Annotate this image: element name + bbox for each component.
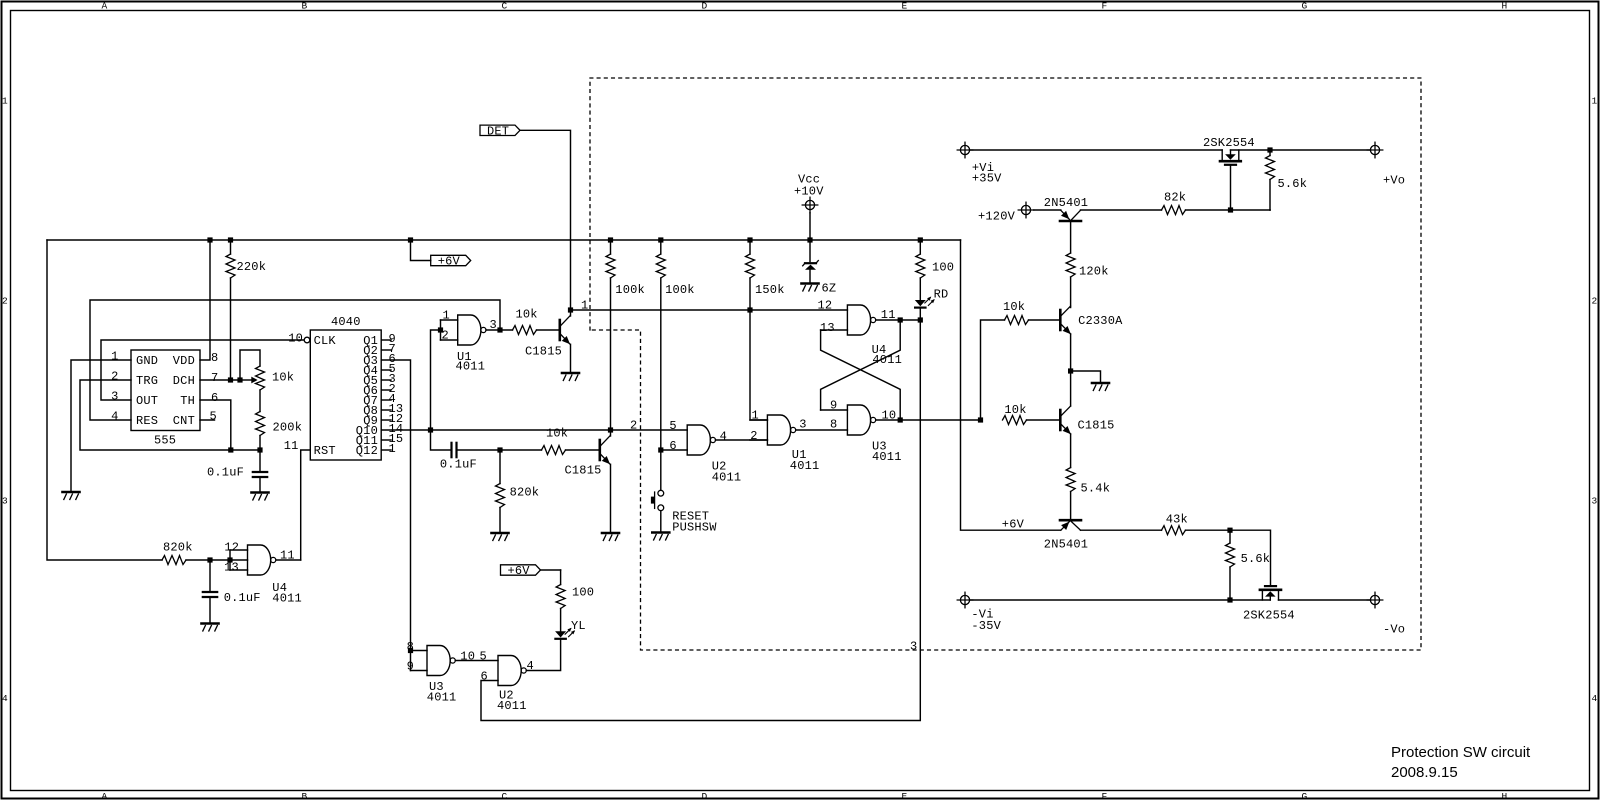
svg-text:9: 9 <box>830 399 837 413</box>
svg-text:4: 4 <box>111 410 118 424</box>
resistor 120k <box>1066 253 1109 308</box>
4040 RST pin 11 label <box>284 439 299 453</box>
resistor 100 (YL) <box>556 570 594 631</box>
svg-text:2: 2 <box>2 296 8 307</box>
transistor 2N5401 top (PNP) <box>1044 196 1088 221</box>
wire cross-couple U4out to U3 pin9 <box>821 320 901 410</box>
svg-text:1: 1 <box>2 96 8 107</box>
resistor 200k <box>256 412 303 451</box>
svg-text:82k: 82k <box>1164 191 1186 205</box>
wire 2N5401 base to 120k <box>1070 222 1072 253</box>
svg-text:5.6k: 5.6k <box>1278 177 1308 191</box>
wire 555 RES pin4 to U1 output node <box>90 300 500 420</box>
resistor 150k <box>746 240 785 310</box>
wire U2b output to YL <box>526 639 560 671</box>
svg-text:DET: DET <box>487 124 509 138</box>
net label 3 <box>910 640 917 654</box>
junction TH wire <box>228 447 233 452</box>
svg-text:820k: 820k <box>510 486 540 500</box>
svg-text:10: 10 <box>460 650 475 664</box>
ground C1815#1 <box>562 373 579 381</box>
border column labels bottom <box>102 791 1508 800</box>
ground 820k <box>492 533 509 541</box>
wire U3b out to U2b pin5 <box>455 650 498 664</box>
svg-text:VDD: VDD <box>173 354 195 368</box>
capacitor 0.1uF (reset) <box>203 560 261 624</box>
svg-text:100: 100 <box>572 586 594 600</box>
wire C1815#3 collector up <box>1070 371 1072 406</box>
wire cap to 10k <box>457 449 542 451</box>
svg-text:C: C <box>502 1 508 12</box>
4040 output pin numbers <box>389 332 404 456</box>
gate U2 4011 bottom (pins 5,6 -> 4) <box>481 656 534 713</box>
svg-text:4011: 4011 <box>872 353 902 367</box>
svg-text:2: 2 <box>111 370 118 384</box>
svg-text:G: G <box>1302 791 1308 800</box>
capacitor 0.1uF (coupling) <box>440 443 477 472</box>
svg-text:F: F <box>1102 791 1108 800</box>
wire Vcc to bus <box>809 213 811 240</box>
svg-text:C1815: C1815 <box>1078 419 1115 433</box>
wire RD cathode down to U4 out / feedback to U2 pin6 <box>481 309 920 721</box>
wire 2N5401 collector to 82k <box>1081 209 1162 211</box>
junction bus/220k <box>228 237 233 242</box>
gate U4 4011 latch (pins 12,13 -> 11) <box>818 298 903 366</box>
net flag +6V (YL) <box>501 564 561 578</box>
resistor 10k (U1 out) <box>513 308 559 335</box>
svg-text:2SK2554: 2SK2554 <box>1203 136 1255 150</box>
dashed boundary box <box>590 78 1421 650</box>
svg-text:+Vo: +Vo <box>1383 174 1405 188</box>
wire 2N5401b collector to 43k <box>1081 529 1162 531</box>
svg-text:CLK: CLK <box>314 334 337 348</box>
resistor 5.4k <box>1066 468 1110 520</box>
svg-text:H: H <box>1502 791 1508 800</box>
junction U1 input tie <box>438 327 443 332</box>
wire 4040 Q3 pin6 to U3 gate inputs <box>381 360 410 671</box>
wire U1 output <box>486 329 513 331</box>
wire -Vi rail right segment <box>1279 599 1371 601</box>
wire +Vi rail right segment <box>1231 149 1371 151</box>
wire 150k node to U1 mid pin1 <box>750 310 767 420</box>
svg-text:4011: 4011 <box>712 471 742 485</box>
svg-text:8: 8 <box>211 351 218 365</box>
svg-text:10: 10 <box>288 332 303 346</box>
svg-text:2N5401: 2N5401 <box>1044 538 1088 552</box>
555 pin numbers right <box>210 351 219 424</box>
junction U3b inputs <box>408 648 413 653</box>
svg-text:5.6k: 5.6k <box>1241 552 1271 566</box>
wire 555 OUT pin3 to 4040 CLK <box>101 340 304 400</box>
wire to 2SK2554 bottom gate <box>1230 530 1271 585</box>
resistor 10k (C2330A base) <box>981 300 1060 420</box>
svg-text:6: 6 <box>481 669 488 683</box>
gate U2 4011 (pins 5,6 -> 4) <box>669 419 741 485</box>
svg-text:+6V: +6V <box>1002 518 1025 532</box>
wire U1 inputs to Q10/cap node <box>431 330 451 450</box>
svg-text:43k: 43k <box>1166 513 1188 527</box>
wire C1815#1 collector <box>570 310 572 316</box>
svg-text:CNT: CNT <box>173 414 195 428</box>
resistor 220k <box>226 240 266 380</box>
gate U1 4011 (pins 1,2 -> 3) <box>441 309 497 374</box>
wire 555 TRG pin2 <box>80 380 260 450</box>
svg-text:-Vo: -Vo <box>1383 623 1405 637</box>
IC 4040 counter box <box>310 315 381 460</box>
junction bus/150k <box>747 237 752 242</box>
svg-text:G: G <box>1302 1 1308 12</box>
junction 150k/net1 <box>747 307 752 312</box>
terminal +Vi <box>957 142 1002 185</box>
wire 5.6k bottom corner <box>1269 209 1271 211</box>
wire +6V rail to 2N5401 bottom <box>961 240 1061 530</box>
svg-text:OUT: OUT <box>136 394 158 408</box>
junction bus/VDD <box>207 237 212 242</box>
wire +6V bus (y=240) <box>47 239 961 241</box>
svg-text:+10V: +10V <box>794 184 824 198</box>
svg-text:4011: 4011 <box>456 360 486 374</box>
ground reset cap <box>202 624 219 632</box>
svg-text:C: C <box>502 791 508 800</box>
svg-text:10k: 10k <box>272 371 294 385</box>
svg-text:6: 6 <box>211 391 218 405</box>
junction cap/820k/10k <box>497 447 502 452</box>
wire left rail down to 820k row <box>47 240 162 560</box>
svg-text:2: 2 <box>1592 296 1598 307</box>
junction DCH/pot wiper <box>237 377 242 382</box>
resistor 10k (base C1815#2) <box>542 427 599 455</box>
junction 820k/cap <box>207 557 212 562</box>
wire 555 VDD pin8 to bus <box>200 240 210 360</box>
LED RD <box>915 288 949 308</box>
wire 555 DCH pin7 <box>200 379 240 381</box>
svg-text:4: 4 <box>1592 693 1598 704</box>
svg-text:5.4k: 5.4k <box>1081 482 1111 496</box>
gate U1 4011 mid (pins 1,2 -> 3) <box>750 408 819 473</box>
svg-text:4040: 4040 <box>331 315 361 329</box>
svg-text:PUSHSW: PUSHSW <box>672 520 717 534</box>
svg-text:E: E <box>902 1 908 12</box>
net label 2 (U1 pin2) <box>750 429 757 443</box>
terminal +Vo <box>1367 142 1405 187</box>
svg-text:4011: 4011 <box>790 459 820 473</box>
svg-text:0.1uF: 0.1uF <box>224 591 261 605</box>
svg-text:+120V: +120V <box>978 210 1016 224</box>
4040 CLK input circle pin 10 <box>288 332 310 346</box>
svg-text:5: 5 <box>210 410 217 424</box>
svg-text:3: 3 <box>910 640 917 654</box>
ground C2330A emitter <box>1092 383 1109 391</box>
wire C2330A emitter to ground junction <box>1070 334 1072 371</box>
svg-text:0.1uF: 0.1uF <box>207 466 244 480</box>
svg-text:C1815: C1815 <box>525 345 562 359</box>
svg-text:12: 12 <box>224 541 239 555</box>
svg-text:H: H <box>1502 1 1508 12</box>
svg-text:3: 3 <box>2 496 8 507</box>
wire U1 mid output to U3 pin8 <box>796 418 848 432</box>
wire U3 output row 420 <box>876 419 981 421</box>
junction U1 output node <box>497 327 502 332</box>
junction 10k feed <box>978 417 983 422</box>
resistor 820k (base pulldown) <box>496 450 540 533</box>
wire C1815#2 emitter to ground <box>610 464 612 533</box>
gate U3 4011 bottom (pins 8,9 -> 10) <box>407 640 476 705</box>
wire 4040 RST pin11 from U4 output <box>301 450 311 560</box>
wire C1815#2 collector to Q10 row <box>610 430 612 436</box>
svg-text:1: 1 <box>389 442 396 456</box>
net label 1 <box>581 299 588 313</box>
svg-text:13: 13 <box>820 321 835 335</box>
svg-text:B: B <box>302 1 308 12</box>
svg-text:D: D <box>702 1 708 12</box>
svg-text:1: 1 <box>443 309 450 323</box>
wire row net1 to U4 pin12 <box>571 309 848 311</box>
svg-text:RD: RD <box>934 288 949 302</box>
svg-text:2N5401: 2N5401 <box>1044 196 1088 210</box>
svg-text:TRG: TRG <box>136 374 158 388</box>
svg-text:F: F <box>1102 1 1108 12</box>
svg-text:1: 1 <box>1592 96 1598 107</box>
svg-text:Protection SW circuit: Protection SW circuit <box>1391 744 1531 761</box>
terminal +120V <box>978 202 1034 223</box>
svg-text:100k: 100k <box>665 283 695 297</box>
wire U2 output to U1 mid pin2 <box>716 439 768 441</box>
svg-text:E: E <box>902 791 908 800</box>
ground RESET switch <box>652 533 669 541</box>
wire to ground stub <box>1071 371 1101 383</box>
svg-text:100k: 100k <box>615 283 645 297</box>
svg-text:5: 5 <box>669 419 676 433</box>
transistor C1815 #3 <box>1060 406 1114 434</box>
LED YL <box>555 619 586 639</box>
svg-text:GND: GND <box>136 354 158 368</box>
resistor 5.6k top <box>1266 150 1308 210</box>
wire +120V to 2N5401 emitter <box>1034 209 1061 211</box>
power terminal Vcc +10V <box>794 173 824 213</box>
wire cross-couple U3out to U4 pin13 <box>821 330 901 420</box>
junction bus/100k-2 <box>658 237 663 242</box>
svg-text:6: 6 <box>669 439 676 453</box>
svg-text:10k: 10k <box>546 427 568 441</box>
svg-text:2SK2554: 2SK2554 <box>1243 608 1295 622</box>
junction RD/U4out <box>918 317 923 322</box>
svg-text:2: 2 <box>630 418 637 432</box>
IC 555 timer box <box>131 350 200 448</box>
svg-text:RES: RES <box>136 414 158 428</box>
svg-text:8: 8 <box>830 418 837 432</box>
potentiometer 10k wiper arrow <box>240 377 258 384</box>
wire 4040 Q10 pin14 row <box>381 429 687 431</box>
svg-text:220k: 220k <box>237 260 267 274</box>
svg-text:1: 1 <box>111 350 118 364</box>
junction 82k/gate <box>1228 207 1233 212</box>
junction bus/+6V flag <box>408 237 413 242</box>
net flag +6V (top) <box>411 240 471 269</box>
wire C1815#3 emitter to 5.4k <box>1070 434 1072 468</box>
resistor 10k (C1815#3 base) <box>1003 403 1060 425</box>
junction bus/Vcc-zener <box>807 237 812 242</box>
ground C1815#2 <box>602 533 619 541</box>
svg-text:13: 13 <box>224 561 239 575</box>
resistor 5.6k bottom <box>1226 530 1271 600</box>
resistor 820k (reset) <box>162 541 248 565</box>
terminal -Vi <box>957 592 1001 633</box>
junction 43k/5.6k <box>1227 528 1232 533</box>
svg-text:2008.9.15: 2008.9.15 <box>1391 764 1458 781</box>
capacitor 0.1uF (timing) <box>207 450 267 493</box>
svg-text:-35V: -35V <box>971 619 1001 633</box>
wire +Vi rail left segment <box>970 149 1223 151</box>
junction emitter/collector/ground <box>1068 368 1073 373</box>
wire zener from bus <box>809 240 811 262</box>
ground zener <box>802 284 819 292</box>
wire 555 GND pin1 to ground <box>71 360 131 492</box>
4040 Q output stubs <box>381 340 391 450</box>
junction U4out/cross <box>898 317 903 322</box>
junction DET/collector <box>568 307 573 312</box>
resistor 100k #2 <box>656 240 694 450</box>
net label 2 <box>630 418 637 432</box>
svg-text:200k: 200k <box>273 421 303 435</box>
svg-text:+6V: +6V <box>438 255 461 269</box>
svg-text:4011: 4011 <box>497 699 527 713</box>
junction U3out/cross <box>898 417 903 422</box>
junction 200k/cap <box>257 447 262 452</box>
wire 2SK2554 top gate lead <box>1230 166 1232 210</box>
svg-text:YL: YL <box>571 619 586 633</box>
svg-text:4011: 4011 <box>872 450 902 464</box>
svg-text:3: 3 <box>111 390 118 404</box>
svg-text:3: 3 <box>1592 496 1598 507</box>
svg-text:+6V: +6V <box>508 564 531 578</box>
junction DCH/220k <box>228 377 233 382</box>
svg-text:7: 7 <box>211 371 218 385</box>
wire U4 output row <box>876 319 921 321</box>
zener diode 6Z <box>803 261 837 296</box>
wire U4 output to RST <box>276 559 301 561</box>
gate U3 4011 latch (pins 9,8 -> 10) <box>821 399 902 464</box>
wire DET to collector node <box>520 130 571 310</box>
border row labels left <box>2 96 8 705</box>
svg-text:0.1uF: 0.1uF <box>440 458 477 472</box>
net label +6V (right) <box>1002 518 1025 532</box>
svg-text:12: 12 <box>818 298 833 312</box>
junction bus/100ohm <box>918 237 923 242</box>
svg-text:100: 100 <box>932 261 954 275</box>
transistor 2N5401 bottom (PNP) <box>1044 520 1088 551</box>
junction 100k2/pin6/switch <box>658 447 663 452</box>
svg-text:1: 1 <box>581 299 588 313</box>
ground 555 GND <box>63 492 80 500</box>
potentiometer 10k top link <box>240 350 260 380</box>
resistor 82k <box>1162 191 1271 215</box>
wire C1815#1 emitter to ground <box>570 344 572 373</box>
svg-text:820k: 820k <box>163 541 193 555</box>
border column labels top <box>102 1 1508 12</box>
svg-text:C1815: C1815 <box>565 464 602 478</box>
svg-text:10k: 10k <box>1004 403 1026 417</box>
border row labels right <box>1592 96 1598 705</box>
resistor 100 (RD) <box>916 240 954 300</box>
svg-text:120k: 120k <box>1079 265 1109 279</box>
transistor C1815 #2 <box>565 436 611 478</box>
wire -Vi rail left segment <box>970 599 1271 601</box>
resistor 43k <box>1162 513 1231 535</box>
junction Q10 row <box>428 427 433 432</box>
net flag DET <box>480 124 520 138</box>
svg-text:4011: 4011 <box>272 592 302 606</box>
pushbutton RESET PUSHSW <box>651 450 717 534</box>
resistor 100k #1 <box>606 240 645 430</box>
svg-text:555: 555 <box>154 434 176 448</box>
svg-text:9: 9 <box>407 660 414 674</box>
terminal -Vo <box>1367 592 1405 636</box>
svg-text:4011: 4011 <box>427 690 457 704</box>
gate U4 4011 (pins 12,13 -> 11) <box>224 541 302 606</box>
wire pot to 200k <box>259 390 261 412</box>
junction collector/Q10 row <box>608 427 613 432</box>
svg-text:4: 4 <box>2 693 8 704</box>
svg-text:6Z: 6Z <box>822 282 837 296</box>
ground timing cap <box>252 493 269 501</box>
svg-text:4: 4 <box>720 430 727 444</box>
555 pin numbers left <box>111 350 118 424</box>
svg-text:DCH: DCH <box>173 374 195 388</box>
svg-text:10k: 10k <box>516 308 538 322</box>
wire U2 pin6 <box>661 449 687 451</box>
MOSFET 2SK2554 top <box>1203 136 1255 165</box>
transistor C2330A (NPN up) <box>1060 306 1123 334</box>
stub 555 CNT pin5 <box>200 419 215 421</box>
junction 5.6k/rail <box>1227 597 1232 602</box>
svg-text:A: A <box>102 791 108 800</box>
svg-text:TH: TH <box>180 394 195 408</box>
svg-text:D: D <box>702 791 708 800</box>
svg-text:A: A <box>102 1 108 12</box>
svg-text:10k: 10k <box>1003 300 1025 314</box>
svg-text:C2330A: C2330A <box>1078 314 1123 328</box>
svg-text:11: 11 <box>284 439 299 453</box>
junction bus/100k-1 <box>608 237 613 242</box>
svg-text:+35V: +35V <box>972 172 1002 186</box>
wire 555 TH pin6 <box>200 400 231 450</box>
svg-text:1: 1 <box>752 408 759 422</box>
transistor C1815 #1 <box>525 316 570 359</box>
junction rail/5.6k <box>1267 147 1272 152</box>
svg-text:B: B <box>302 791 308 800</box>
potentiometer 10k body <box>256 366 295 390</box>
svg-text:Q12: Q12 <box>356 444 378 458</box>
junction U4 input tie <box>227 557 232 562</box>
svg-text:RST: RST <box>314 444 336 458</box>
svg-text:5: 5 <box>480 650 487 664</box>
svg-text:150k: 150k <box>755 283 785 297</box>
title text <box>1391 744 1531 781</box>
MOSFET 2SK2554 bottom <box>1243 586 1295 622</box>
